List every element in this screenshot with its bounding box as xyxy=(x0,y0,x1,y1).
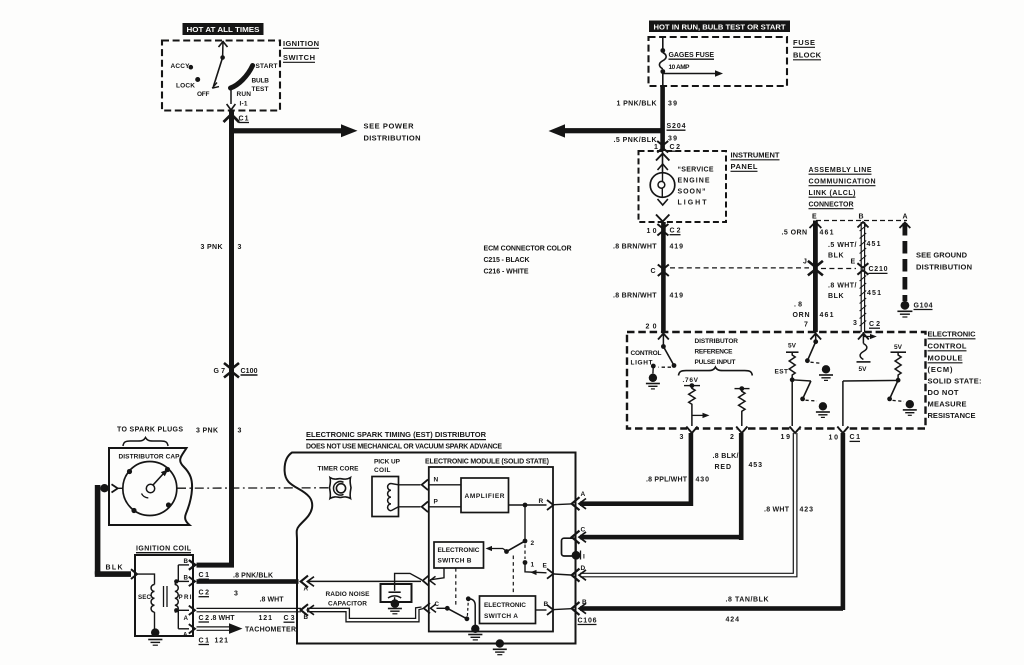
svg-text:REFERENCE: REFERENCE xyxy=(695,349,734,356)
ignition coil box xyxy=(135,546,193,637)
pickup coil output N xyxy=(399,477,462,491)
svg-text:SWITCH A: SWITCH A xyxy=(484,613,518,620)
labels .5 WHT/BLK 451 xyxy=(828,241,881,266)
wire 1 PNK/BLK 39 xyxy=(617,86,678,151)
svg-text:.5 ORN: .5 ORN xyxy=(782,230,808,237)
wire ALCL pin A dashed to ground xyxy=(900,223,911,302)
svg-text:.5 PNK/BLK: .5 PNK/BLK xyxy=(614,137,657,144)
distributor cap box xyxy=(109,448,192,525)
svg-text:PICK UP: PICK UP xyxy=(374,459,401,466)
ECM resistor line to pin 3 (ref pulse) xyxy=(684,383,710,426)
svg-text:3: 3 xyxy=(238,244,242,251)
electronic module box xyxy=(425,459,553,632)
svg-text:COIL: COIL xyxy=(374,467,391,474)
svg-text:.8 PNK/BLK: .8 PNK/BLK xyxy=(233,573,273,580)
svg-text:“SERVICE: “SERVICE xyxy=(678,167,714,174)
svg-text:3: 3 xyxy=(234,591,238,598)
instrument panel box xyxy=(639,151,780,223)
svg-text:.8 BRN/WHT: .8 BRN/WHT xyxy=(613,293,657,300)
svg-text:.8 WHT: .8 WHT xyxy=(764,507,790,514)
svg-text:J: J xyxy=(803,259,807,266)
svg-text:5V: 5V xyxy=(788,342,797,349)
pick up coil xyxy=(372,459,401,517)
svg-text:SEC: SEC xyxy=(138,594,152,601)
svg-text:SWITCH: SWITCH xyxy=(283,53,315,62)
svg-text:E: E xyxy=(851,259,856,266)
distributor right edge pin B xyxy=(572,599,587,615)
distributor right edge pin C xyxy=(572,527,586,544)
svg-text:C216 - WHITE: C216 - WHITE xyxy=(484,269,529,276)
svg-text:419: 419 xyxy=(670,293,684,300)
svg-text:2: 2 xyxy=(730,434,734,441)
wire .8 BRN/WHT 419 upper xyxy=(613,222,683,332)
EST monitor switch to ground xyxy=(792,380,830,418)
coil primary winding xyxy=(175,585,192,613)
amplifier output R to pin A xyxy=(509,498,572,510)
svg-text:.8 BRN/WHT: .8 BRN/WHT xyxy=(613,244,657,251)
svg-text:5V: 5V xyxy=(894,344,903,351)
svg-text:121: 121 xyxy=(215,637,229,644)
amplifier xyxy=(461,478,509,513)
wire 3 PNK main vertical xyxy=(229,111,234,568)
svg-text:BLK: BLK xyxy=(106,565,123,572)
gages fuse xyxy=(659,37,723,86)
ignition switch contacts xyxy=(171,41,278,110)
svg-text:HOT AT ALL TIMES: HOT AT ALL TIMES xyxy=(187,27,260,34)
svg-text:39: 39 xyxy=(668,136,677,143)
electronic switch A box xyxy=(480,596,536,624)
svg-text:CONTROL: CONTROL xyxy=(928,342,967,351)
ground G104 xyxy=(897,301,932,317)
svg-text:ELECTRONIC MODULE (SOLID STATE: ELECTRONIC MODULE (SOLID STATE) xyxy=(425,459,549,466)
connector C106 label xyxy=(578,617,597,624)
svg-text:R: R xyxy=(539,498,544,505)
distributor reference pulse input label + brace xyxy=(679,338,753,384)
svg-text:MEASURE: MEASURE xyxy=(928,400,967,409)
dashed link J to C210 xyxy=(821,268,856,270)
distributor right edge pin A xyxy=(572,491,586,510)
svg-text:LINK (ALCL): LINK (ALCL) xyxy=(809,190,856,197)
svg-text:.8 WHT: .8 WHT xyxy=(260,597,285,604)
svg-text:IGNITION: IGNITION xyxy=(283,39,319,48)
label 3 PNK upper xyxy=(201,244,242,251)
electronic switch B box xyxy=(434,542,484,568)
svg-text:.8 PPL/WHT: .8 PPL/WHT xyxy=(646,477,688,484)
ECM box xyxy=(627,332,926,429)
svg-text:C106: C106 xyxy=(578,617,597,624)
svg-text:OFF: OFF xyxy=(197,91,210,98)
svg-text:DOES NOT USE MECHANICAL OR VAC: DOES NOT USE MECHANICAL OR VACUUM SPARK … xyxy=(306,444,502,451)
svg-text:IGNITION COIL: IGNITION COIL xyxy=(136,546,192,553)
svg-text:INSTRUMENT: INSTRUMENT xyxy=(731,151,780,160)
svg-text:DISTRIBUTION: DISTRIBUTION xyxy=(916,263,972,272)
svg-text:DISTRIBUTOR: DISTRIBUTOR xyxy=(695,338,739,345)
svg-text:.8 TAN/BLK: .8 TAN/BLK xyxy=(726,597,769,604)
banner HOT IN RUN, BULB TEST OR START xyxy=(649,21,790,33)
svg-text:RED: RED xyxy=(715,464,732,471)
dash-dot rotor axis line xyxy=(177,487,329,489)
svg-text:B: B xyxy=(304,614,309,621)
svg-text:3: 3 xyxy=(238,428,242,435)
svg-text:ORN: ORN xyxy=(793,312,810,319)
svg-text:.8 WHT: .8 WHT xyxy=(211,615,236,622)
EST 5V pullup to pin 19 xyxy=(775,342,799,426)
svg-text:PANEL: PANEL xyxy=(731,162,758,171)
svg-text:D: D xyxy=(581,565,586,572)
svg-text:1 PNK/BLK: 1 PNK/BLK xyxy=(617,101,657,108)
svg-text:S204: S204 xyxy=(667,123,686,130)
svg-text:TEST: TEST xyxy=(252,86,269,93)
svg-text:COMMUNICATION: COMMUNICATION xyxy=(809,179,876,186)
svg-text:DISTRIBUTOR CAP: DISTRIBUTOR CAP xyxy=(119,454,181,461)
wire 451 twisted pair ALCL pin B xyxy=(858,222,869,332)
svg-text:C: C xyxy=(651,268,656,275)
labels .8 WHT/BLK 451 xyxy=(828,283,881,301)
svg-text:HOT IN RUN, BULB TEST OR START: HOT IN RUN, BULB TEST OR START xyxy=(654,25,787,32)
svg-text:(ECM): (ECM) xyxy=(928,365,954,374)
coil secondary winding xyxy=(138,574,163,645)
svg-text:E: E xyxy=(812,214,817,221)
svg-text:B: B xyxy=(184,575,189,582)
svg-text:A: A xyxy=(581,491,586,498)
connector C210 xyxy=(857,263,887,275)
dashed control links xyxy=(455,568,457,605)
svg-text:3 PNK: 3 PNK xyxy=(196,428,218,435)
svg-text:424: 424 xyxy=(726,617,740,624)
svg-text:3: 3 xyxy=(680,434,684,441)
splice C on 419 wire xyxy=(651,265,669,277)
wire .8 WHT 121 coil to distributor (double line) xyxy=(197,608,302,622)
svg-text:C: C xyxy=(435,601,440,608)
svg-text:PULSE INPUT: PULSE INPUT xyxy=(695,359,736,366)
connector C1 ignition switch xyxy=(224,114,250,122)
bypass line from coil to switch A input C xyxy=(301,601,440,622)
coil pins B/B xyxy=(174,558,195,586)
svg-text:461: 461 xyxy=(820,312,834,319)
arrow SEE POWER DISTRIBUTION xyxy=(229,122,421,143)
distributor module ground xyxy=(493,639,507,654)
ALCL pin letters xyxy=(812,214,908,221)
ignition switch box xyxy=(162,39,319,111)
svg-text:I: I xyxy=(583,554,585,561)
svg-text:7: 7 xyxy=(804,322,808,329)
svg-text:BULB: BULB xyxy=(252,78,270,85)
svg-text:461: 461 xyxy=(820,230,834,237)
svg-text:39: 39 xyxy=(668,101,677,108)
tachometer stub xyxy=(197,623,297,644)
svg-text:A: A xyxy=(903,214,908,221)
right 5V pullup to pin 10 with switch to ground xyxy=(887,344,917,416)
svg-text:B: B xyxy=(544,601,549,608)
svg-text:C210: C210 xyxy=(869,266,888,273)
svg-text:451: 451 xyxy=(867,290,881,297)
distributor right edge pin D xyxy=(572,565,586,582)
switch A output B to pin B xyxy=(536,601,572,615)
svg-text:G104: G104 xyxy=(914,302,933,309)
svg-text:RUN: RUN xyxy=(237,91,252,98)
svg-text:419: 419 xyxy=(670,244,684,251)
banner HOT AT ALL TIMES xyxy=(183,23,264,35)
distributor housing outline xyxy=(285,453,576,644)
svg-text:DISTRIBUTION: DISTRIBUTION xyxy=(364,134,421,143)
switch B feed from supply line xyxy=(423,568,444,586)
svg-text:I-1: I-1 xyxy=(240,101,248,108)
svg-text:RADIO NOISE: RADIO NOISE xyxy=(326,591,371,598)
svg-text:1: 1 xyxy=(531,561,535,568)
svg-text:C: C xyxy=(581,527,586,534)
svg-text:453: 453 xyxy=(749,462,763,469)
dashed link C to J xyxy=(670,267,809,269)
ECM pin 7 entry + diagnostic switch xyxy=(805,332,833,380)
ECM pin 20 entry + control light switch xyxy=(631,332,677,389)
fuse block box xyxy=(649,37,822,86)
svg-text:3 PNK: 3 PNK xyxy=(201,244,223,251)
svg-text:AMPLIFIER: AMPLIFIER xyxy=(465,493,505,500)
label 3 PNK lower xyxy=(196,428,242,435)
svg-text:E: E xyxy=(543,562,548,569)
ECM bottom pin labels xyxy=(680,434,861,442)
svg-text:B: B xyxy=(859,214,864,221)
distributor connector tab + pin I xyxy=(562,538,586,560)
electronic switch A pole xyxy=(437,596,483,640)
svg-text:TACHOMETER: TACHOMETER xyxy=(245,627,296,634)
connector C2 pin 10 xyxy=(647,224,681,236)
svg-text:C215 - BLACK: C215 - BLACK xyxy=(484,257,530,264)
svg-text:LIGHT: LIGHT xyxy=(631,360,653,367)
connector C100 / G7 xyxy=(214,363,258,378)
svg-text:PRI: PRI xyxy=(179,594,192,601)
coil core xyxy=(164,586,168,607)
svg-text:FUSE: FUSE xyxy=(793,38,815,47)
wire .5 PNK/BLK 39 / connector C2 xyxy=(614,136,681,153)
supply line from coil B+ across distributor xyxy=(301,576,421,593)
ECM connector color note xyxy=(484,246,572,276)
svg-text:BLK: BLK xyxy=(828,293,844,300)
pin numbers 7 / 3 C2 xyxy=(804,320,880,329)
svg-text:2: 2 xyxy=(531,540,535,547)
coil pins A/A xyxy=(174,606,195,639)
svg-text:121: 121 xyxy=(259,615,273,622)
svg-text:MODULE: MODULE xyxy=(928,354,963,363)
svg-text:EST: EST xyxy=(775,368,789,375)
svg-text:ELECTRONIC: ELECTRONIC xyxy=(438,547,480,554)
svg-text:BLK: BLK xyxy=(828,253,844,260)
svg-text:CONTROL: CONTROL xyxy=(631,350,662,357)
radio noise capacitor xyxy=(326,581,412,613)
svg-text:423: 423 xyxy=(800,507,814,514)
electronic switch B assembly xyxy=(486,505,548,569)
BLK lead into ignition coil xyxy=(95,565,137,580)
svg-text:451: 451 xyxy=(867,241,881,248)
to spark plugs label + brace xyxy=(117,427,183,447)
ECM heading xyxy=(928,330,982,421)
capacitor bypass jog xyxy=(395,573,422,581)
svg-text:A: A xyxy=(304,586,309,593)
svg-text:P: P xyxy=(434,499,439,506)
svg-text:10 AMP: 10 AMP xyxy=(669,64,691,71)
svg-text:SEE POWER: SEE POWER xyxy=(364,122,415,131)
svg-text:TIMER CORE: TIMER CORE xyxy=(318,466,360,473)
wire .8 PNK/BLK coil to distributor xyxy=(197,572,299,604)
svg-text:10: 10 xyxy=(829,435,839,442)
svg-text:SOLID STATE:: SOLID STATE: xyxy=(928,377,982,386)
svg-text:19: 19 xyxy=(781,434,791,441)
svg-text:ECM CONNECTOR COLOR: ECM CONNECTOR COLOR xyxy=(484,246,572,253)
svg-text:BLOCK: BLOCK xyxy=(793,51,822,60)
svg-text:.8 BLK/: .8 BLK/ xyxy=(713,453,739,460)
splice J on 461 wire xyxy=(803,259,823,276)
svg-text:RESISTANCE: RESISTANCE xyxy=(928,411,976,420)
svg-text:.8: .8 xyxy=(794,302,802,309)
svg-text:1: 1 xyxy=(654,144,658,151)
svg-text:TO SPARK PLUGS: TO SPARK PLUGS xyxy=(117,427,183,434)
svg-text:.76V: .76V xyxy=(683,377,699,384)
svg-text:5V: 5V xyxy=(859,366,868,373)
rotor xyxy=(142,469,169,498)
svg-text:ENGINE: ENGINE xyxy=(678,178,710,185)
ECM pin 3 C2 entry with 5V pullup xyxy=(857,332,877,373)
wire 453 .8 BLK/RED xyxy=(580,430,762,540)
svg-text:LOCK: LOCK xyxy=(176,83,195,90)
pickup coil output P xyxy=(399,499,462,513)
svg-text:B: B xyxy=(582,599,587,606)
svg-text:ELECTRONIC SPARK TIMING (EST): ELECTRONIC SPARK TIMING (EST) DISTRIBUTO… xyxy=(306,430,487,439)
svg-text:.5 WHT/: .5 WHT/ xyxy=(828,242,857,249)
svg-text:ELECTRONIC: ELECTRONIC xyxy=(484,602,526,609)
service engine soon lamp xyxy=(650,151,714,222)
svg-text:.8 WHT/: .8 WHT/ xyxy=(828,283,857,290)
wire .8 BRN/WHT 419 lower xyxy=(613,293,683,331)
svg-text:CONNECTOR: CONNECTOR xyxy=(809,202,854,209)
ECM bottom edge pin arrowheads xyxy=(686,426,848,433)
svg-text:C100: C100 xyxy=(241,368,258,375)
svg-text:430: 430 xyxy=(696,477,710,484)
svg-text:SEE GROUND: SEE GROUND xyxy=(916,251,968,260)
switch output E to pin D xyxy=(525,563,571,579)
wire 461 ALCL pin E vertical xyxy=(782,221,834,333)
svg-text:B: B xyxy=(184,558,189,565)
wire 424 .8 TAN/BLK xyxy=(580,430,845,624)
svg-text:A: A xyxy=(184,615,189,622)
coil secondary lead into cap xyxy=(95,484,123,575)
svg-text:A: A xyxy=(183,632,188,639)
splice S204 arrow left xyxy=(549,123,686,138)
svg-text:ACCY: ACCY xyxy=(171,63,191,70)
svg-text:SOON”: SOON” xyxy=(678,189,706,196)
svg-text:GAGES FUSE: GAGES FUSE xyxy=(669,52,715,59)
svg-text:N: N xyxy=(434,477,439,484)
wire 423 .8 WHT (double line) xyxy=(580,430,813,577)
note SEE GROUND DISTRIBUTION xyxy=(916,251,972,272)
labels .8 ORN 461 xyxy=(793,302,834,320)
wire bend into ignition coil pin B xyxy=(189,560,234,570)
svg-text:SWITCH B: SWITCH B xyxy=(438,557,472,564)
svg-text:3: 3 xyxy=(853,320,857,327)
ALCL connector heading xyxy=(809,167,876,209)
svg-text:C1: C1 xyxy=(239,116,249,123)
wire 430 .8 PPL/WHT xyxy=(580,430,709,506)
svg-text:ASSEMBLY LINE: ASSEMBLY LINE xyxy=(809,167,872,174)
svg-text:DO NOT: DO NOT xyxy=(928,388,959,397)
pin 10 link line xyxy=(843,380,898,426)
ECM resistor line to pin 2 (ref pulse low) xyxy=(735,386,750,426)
ALCL connector face dashed line xyxy=(816,220,907,222)
svg-text:ELECTRONIC: ELECTRONIC xyxy=(928,330,977,339)
svg-text:START: START xyxy=(256,63,278,70)
distributor title xyxy=(306,430,502,451)
svg-text:CAPACITOR: CAPACITOR xyxy=(328,601,367,608)
timer core xyxy=(318,466,360,499)
